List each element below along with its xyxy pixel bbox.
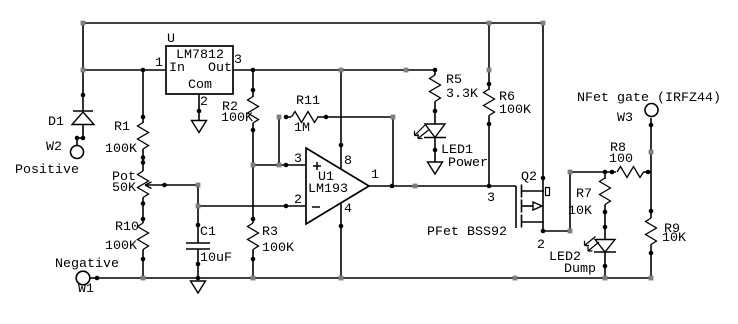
wire pot wiper xyxy=(147,184,198,186)
wire xyxy=(76,138,78,146)
svg-text:Out: Out xyxy=(208,60,232,75)
node dot xyxy=(141,68,146,73)
resistor R1 100K xyxy=(105,119,149,156)
diode D1 xyxy=(48,111,94,129)
svg-text:8: 8 xyxy=(344,153,352,168)
wire junction xyxy=(339,68,344,73)
node +BATT top rail xyxy=(83,22,543,24)
svg-text:2: 2 xyxy=(537,237,545,252)
wire xyxy=(286,116,291,118)
svg-text:R7: R7 xyxy=(576,186,592,201)
svg-text:100K: 100K xyxy=(262,240,294,255)
node dot xyxy=(197,109,202,114)
resistor R6 100K xyxy=(484,89,532,117)
port W3 NFet gate xyxy=(577,90,721,125)
wire junction xyxy=(513,276,518,281)
svg-text:2: 2 xyxy=(200,94,208,109)
wire xyxy=(392,117,394,186)
node dot xyxy=(196,262,201,267)
node dot xyxy=(433,109,438,114)
svg-text:R5: R5 xyxy=(446,72,462,87)
LED1 Power xyxy=(415,124,489,170)
wire junction xyxy=(413,184,418,189)
wire junction xyxy=(81,68,86,73)
node dot xyxy=(649,251,654,256)
svg-text:1: 1 xyxy=(371,167,379,182)
svg-text:3: 3 xyxy=(234,52,242,67)
wire junction xyxy=(196,204,201,209)
svg-text:R1: R1 xyxy=(114,119,130,134)
wire xyxy=(650,245,652,279)
wire pin 4 to ground xyxy=(340,203,342,278)
wire junction xyxy=(603,276,608,281)
wire xyxy=(82,124,84,138)
wire junction xyxy=(487,68,492,73)
resistor R3 100K xyxy=(248,223,295,255)
svg-text:100K: 100K xyxy=(499,102,531,117)
port W1 Negative xyxy=(55,256,119,296)
ground xyxy=(192,121,207,133)
LED2 Dump xyxy=(549,237,616,277)
svg-text:1M: 1M xyxy=(294,120,310,135)
wire xyxy=(142,70,144,123)
svg-text:W2: W2 xyxy=(46,139,62,154)
node dot xyxy=(95,276,100,281)
svg-text:50K: 50K xyxy=(112,180,136,195)
svg-text:R3: R3 xyxy=(262,224,278,239)
svg-text:100K: 100K xyxy=(105,141,137,156)
capacitor C1 10uF xyxy=(186,224,232,265)
wire xyxy=(434,102,436,125)
wire xyxy=(434,138,436,163)
node dot xyxy=(610,170,615,175)
svg-text:R10: R10 xyxy=(115,219,139,234)
wire junction xyxy=(404,68,409,73)
wire junction xyxy=(251,163,256,168)
svg-text:3.3K: 3.3K xyxy=(446,86,478,101)
node dot xyxy=(141,115,146,120)
svg-text:2: 2 xyxy=(294,192,302,207)
transistor Q2 PFet BSS92 xyxy=(427,169,550,239)
wire xyxy=(252,250,254,279)
wire xyxy=(197,249,199,278)
wire junction xyxy=(339,276,344,281)
wire xyxy=(569,172,571,231)
node dot xyxy=(141,217,146,222)
wire xyxy=(198,205,306,207)
svg-text:C1: C1 xyxy=(200,224,216,239)
node dot xyxy=(141,201,146,206)
svg-text:U: U xyxy=(167,31,175,46)
potentiometer Pot 50K xyxy=(112,169,152,198)
node dot xyxy=(649,209,654,214)
ground xyxy=(428,162,443,174)
wire xyxy=(650,118,652,218)
op-amp U1 LM193 xyxy=(306,148,369,224)
resistor R8 100 xyxy=(609,140,644,178)
svg-text:4: 4 xyxy=(344,201,352,216)
node dot xyxy=(81,136,86,141)
svg-text:3: 3 xyxy=(487,190,495,205)
wire xyxy=(488,116,490,187)
svg-text:W3: W3 xyxy=(617,110,633,125)
wire junction xyxy=(649,276,654,281)
wire junction xyxy=(141,276,146,281)
port W2 Positive xyxy=(15,139,84,177)
wire xyxy=(543,230,570,232)
wire xyxy=(644,171,652,173)
svg-text:1: 1 xyxy=(155,55,163,70)
node dot xyxy=(284,163,289,168)
wire junction xyxy=(81,21,86,26)
wire xyxy=(604,252,606,278)
node dot xyxy=(487,82,492,87)
svg-text:100K: 100K xyxy=(105,238,137,253)
node dot xyxy=(251,68,256,73)
wire V+ to pin 8 xyxy=(340,70,342,169)
node dot xyxy=(141,257,146,262)
wire xyxy=(142,198,144,224)
node dot xyxy=(646,170,651,175)
wire junction xyxy=(541,21,546,26)
svg-text:3: 3 xyxy=(294,151,302,166)
ground xyxy=(191,281,206,293)
wire xyxy=(542,22,544,231)
node dot xyxy=(141,160,146,165)
node dot xyxy=(603,170,608,175)
wire junction xyxy=(277,163,282,168)
node dot xyxy=(162,183,167,188)
wire junction xyxy=(277,115,282,120)
node dot xyxy=(196,276,201,281)
svg-text:Negative: Negative xyxy=(55,256,119,271)
node dot xyxy=(390,184,395,189)
svg-text:R11: R11 xyxy=(296,93,320,108)
svg-text:D1: D1 xyxy=(48,114,64,129)
wire xyxy=(198,94,200,120)
wire xyxy=(197,206,199,243)
node dot xyxy=(339,224,344,229)
node dot xyxy=(541,176,546,181)
wire xyxy=(434,70,436,75)
wire junction xyxy=(568,229,573,234)
node dot xyxy=(75,136,80,141)
svg-text:Dump: Dump xyxy=(564,261,596,276)
node dot xyxy=(81,93,86,98)
wire xyxy=(197,185,199,206)
node dot xyxy=(251,128,256,133)
node dot xyxy=(251,257,256,262)
wire output node xyxy=(369,185,516,187)
svg-text:100K: 100K xyxy=(221,110,253,125)
node dot xyxy=(251,88,256,93)
wire junction xyxy=(487,21,492,26)
wire xyxy=(142,250,144,279)
wire xyxy=(83,69,166,71)
wire xyxy=(604,172,606,179)
node dot xyxy=(196,223,201,228)
svg-text:Com: Com xyxy=(188,77,212,92)
svg-text:100: 100 xyxy=(609,151,633,166)
resistor R9 10K xyxy=(646,218,687,245)
node dot xyxy=(487,122,492,127)
wire xyxy=(82,22,84,111)
wire xyxy=(252,70,254,97)
svg-text:LM193: LM193 xyxy=(308,181,348,196)
node dot xyxy=(339,143,344,148)
wire xyxy=(604,205,606,240)
wire xyxy=(142,149,144,171)
node dot xyxy=(324,115,329,120)
svg-text:Positive: Positive xyxy=(15,162,79,177)
wire junction xyxy=(649,150,654,155)
node dot xyxy=(541,229,546,234)
svg-text:10K: 10K xyxy=(568,203,592,218)
svg-text:NFet gate (IRFZ44): NFet gate (IRFZ44) xyxy=(577,90,721,105)
wire xyxy=(488,23,490,90)
wire junction xyxy=(251,276,256,281)
svg-text:10uF: 10uF xyxy=(200,250,232,265)
svg-text:Q2: Q2 xyxy=(521,169,537,184)
svg-text:Power: Power xyxy=(448,155,488,170)
wire junction xyxy=(568,170,573,175)
resistor R5 3.3K xyxy=(430,72,479,102)
svg-text:W1: W1 xyxy=(78,281,94,296)
svg-text:In: In xyxy=(169,60,185,75)
node dot xyxy=(433,148,438,153)
wire xyxy=(76,137,84,139)
resistor R11 1M xyxy=(292,93,321,135)
node dot xyxy=(487,184,492,189)
node dot xyxy=(433,68,438,73)
resistor R10 100K xyxy=(105,219,149,253)
wire xyxy=(253,164,306,166)
wire xyxy=(233,69,435,71)
node negative bottom rail xyxy=(97,277,651,279)
svg-text:10K: 10K xyxy=(662,230,686,245)
wire xyxy=(317,116,393,118)
resistor R7 10K xyxy=(568,178,611,218)
wire xyxy=(570,171,616,173)
wire xyxy=(252,123,254,223)
regulator U LM7812 xyxy=(166,31,233,94)
node dot xyxy=(284,115,289,120)
node dot xyxy=(141,155,146,160)
node dot xyxy=(603,210,608,215)
node dot xyxy=(251,217,256,222)
node dot xyxy=(649,123,654,128)
wire junction xyxy=(391,115,396,120)
wire xyxy=(278,117,280,165)
node dot xyxy=(284,204,289,209)
node dot xyxy=(603,225,608,230)
wire junction xyxy=(196,183,201,188)
svg-text:PFet BSS92: PFet BSS92 xyxy=(427,224,507,239)
resistor R2 100K xyxy=(221,97,259,126)
node dot xyxy=(603,264,608,269)
